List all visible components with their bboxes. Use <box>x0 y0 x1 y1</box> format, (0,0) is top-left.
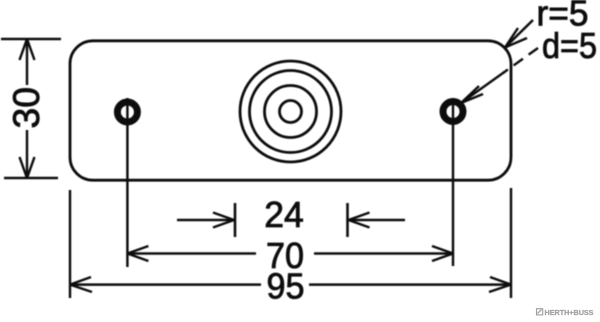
dimension 70: left extension line <box>126 98 128 267</box>
dimension 70: right extension line <box>452 98 454 266</box>
dimension 30: text <box>6 87 47 129</box>
annotation d=5: arrowhead <box>461 86 483 103</box>
HERTH+BUSS logo <box>537 308 594 317</box>
dimension 30: bottom arrow <box>20 157 35 178</box>
dimension 95: left arrow <box>70 277 92 292</box>
left mounting hole <box>117 102 137 122</box>
dimension 95: dimension line <box>70 283 511 285</box>
svg-text:95: 95 <box>267 266 305 307</box>
annotation r=5: text <box>537 0 589 34</box>
right mounting hole <box>443 102 463 122</box>
svg-text:HERTH+BUSS: HERTH+BUSS <box>545 308 594 317</box>
dimension 70: dimension line <box>127 252 453 254</box>
dimension 95: left extension line <box>69 190 71 298</box>
dimension 70: left arrow <box>127 246 148 261</box>
annotation r=5: leader line <box>505 20 533 48</box>
svg-text:30: 30 <box>6 87 47 129</box>
dimension 95: right extension line <box>510 188 512 298</box>
dimension 30: top arrow <box>20 39 35 60</box>
dimension 24: right tick <box>346 203 349 237</box>
dimension 95: right arrow <box>489 277 511 292</box>
dimension 70: right arrow <box>432 246 453 261</box>
dimension 24: left tick <box>234 203 237 237</box>
dimension 24: left arrow <box>177 213 234 228</box>
dimension 30: top extension line <box>1 38 61 41</box>
svg-text:24: 24 <box>264 194 304 235</box>
lens concentric circles <box>240 61 341 162</box>
dimension 24: right arrow <box>349 213 406 228</box>
dimension 95: text <box>267 266 305 307</box>
dimension 24: text <box>264 194 304 235</box>
dimension 70: text <box>266 235 304 276</box>
annotation d=5: dashed leader line <box>461 48 538 103</box>
svg-text:d=5: d=5 <box>542 25 597 66</box>
annotation d=5: text <box>542 25 597 66</box>
dimension 30: dimension line <box>26 39 28 178</box>
dimension 30: bottom extension line <box>4 177 58 180</box>
annotation r=5: arrowhead <box>505 28 527 48</box>
part outline (rounded rectangle) <box>70 41 511 180</box>
